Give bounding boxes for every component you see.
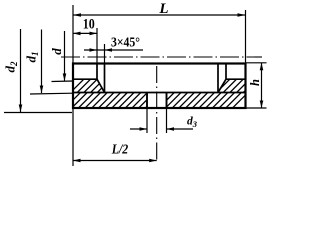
- chamfer arrow pointing left: [105, 48, 113, 52]
- label d2: [3, 61, 20, 73]
- svg-text:d3: d3: [187, 115, 198, 129]
- svg-text:L/2: L/2: [111, 141, 129, 156]
- horizontal axis centerline: [61, 56, 262, 58]
- hatch bottom band right of hole: [154, 87, 254, 113]
- label d: [49, 48, 64, 55]
- d1 dimension line: [30, 30, 73, 95]
- h arrow down: [260, 101, 264, 109]
- h arrow up: [260, 63, 264, 71]
- d1 arrow down: [40, 86, 44, 94]
- bore end face line left: [73, 78, 97, 80]
- chamfer dimension line: [84, 44, 143, 64]
- d2 dimension line: [4, 29, 72, 113]
- L/2 arrow left: [73, 159, 81, 163]
- vertical centerline: [156, 66, 158, 163]
- label 10: [83, 17, 95, 33]
- svg-text:10: 10: [83, 17, 95, 33]
- 10 arrow right: [90, 32, 98, 36]
- d3 arrow pointing right: [140, 127, 148, 131]
- chamfer diagonal right: [218, 79, 226, 92]
- chamfer vertical left outer: [96, 64, 98, 80]
- L arrow left: [73, 13, 81, 17]
- chamfer vertical right outer: [225, 64, 227, 80]
- bore end face line right: [226, 78, 246, 80]
- label d3: [187, 115, 198, 129]
- chamfer vertical right inner: [217, 64, 219, 93]
- part outline: [73, 64, 246, 109]
- d arrow down: [63, 74, 67, 82]
- d3 arrow pointing left: [167, 127, 175, 131]
- svg-text:d2: d2: [3, 61, 20, 73]
- h dimension line: [261, 63, 263, 108]
- d2 arrow down: [19, 105, 23, 113]
- hole d3 left wall: [146, 93, 148, 109]
- 10 dimension line and right extension: [73, 28, 97, 64]
- hatch right trapezoid: [212, 73, 270, 97]
- L/2 extension line: [72, 108, 74, 166]
- L/2 dimension line: [73, 160, 157, 162]
- d3 dimension line segments: [130, 128, 193, 130]
- 10 arrow left: [73, 32, 81, 36]
- d dimension line: [52, 31, 74, 82]
- h dimension extension lines: [246, 63, 267, 108]
- hatch left trapezoid: [66, 73, 124, 97]
- d3 extension lines: [147, 108, 167, 133]
- label L: [158, 1, 168, 17]
- svg-text:d1: d1: [24, 52, 41, 63]
- L dimension line: [73, 14, 246, 16]
- hole d3 right wall: [166, 93, 168, 109]
- svg-text:h: h: [248, 79, 262, 86]
- svg-text:3×45°: 3×45°: [111, 35, 140, 50]
- label 3x45: [111, 35, 140, 50]
- label d1: [24, 52, 41, 63]
- label L/2: [111, 141, 129, 156]
- chamfer diagonal left: [97, 79, 105, 92]
- groove floor line: [73, 92, 246, 94]
- chamfer arrow pointing right: [90, 48, 98, 52]
- label h: [248, 79, 262, 86]
- chamfer vertical left inner: [104, 64, 106, 93]
- svg-text:d: d: [49, 48, 64, 55]
- L arrow right: [238, 13, 246, 17]
- L/2 arrow right: [149, 159, 157, 163]
- svg-text:L: L: [158, 1, 168, 17]
- hatch bottom band left of hole: [60, 87, 166, 113]
- L dimension extension lines: [73, 5, 246, 64]
